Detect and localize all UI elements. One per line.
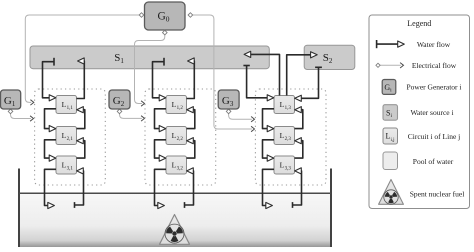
svg-text:3,2: 3,2 (177, 166, 184, 171)
svg-text:Circuit i of Line j: Circuit i of Line j (408, 132, 461, 141)
svg-text:Power Generator i: Power Generator i (407, 83, 462, 92)
svg-text:Electrical flow: Electrical flow (412, 61, 457, 70)
svg-text:i,j: i,j (391, 138, 395, 143)
svg-text:1,2: 1,2 (177, 106, 184, 111)
svg-text:3,3: 3,3 (285, 166, 292, 171)
svg-text:Water source i: Water source i (410, 108, 453, 117)
svg-text:Water flow: Water flow (417, 40, 451, 49)
svg-text:2,1: 2,1 (67, 137, 74, 142)
svg-text:Legend: Legend (407, 19, 431, 28)
svg-text:Pool of water: Pool of water (413, 157, 454, 166)
svg-text:2,3: 2,3 (285, 137, 292, 142)
svg-text:1,1: 1,1 (67, 106, 74, 111)
svg-text:Spent nuclear fuel: Spent nuclear fuel (410, 190, 465, 199)
svg-text:3,1: 3,1 (67, 166, 74, 171)
svg-text:2,2: 2,2 (177, 137, 184, 142)
svg-text:1,3: 1,3 (285, 106, 292, 111)
